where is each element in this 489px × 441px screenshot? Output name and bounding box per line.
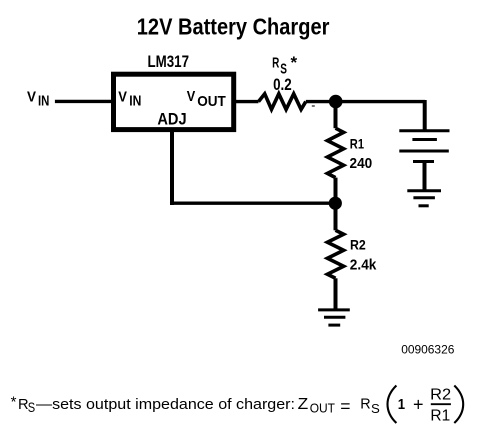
svg-text:IN: IN (38, 93, 49, 110)
svg-text:*: * (11, 393, 17, 410)
svg-text:Z: Z (298, 396, 309, 413)
svg-text:R2: R2 (350, 237, 366, 253)
svg-text:=: = (340, 396, 350, 416)
svg-text:OUT: OUT (197, 93, 226, 110)
svg-text:1: 1 (398, 397, 405, 413)
svg-text:S: S (280, 61, 287, 77)
svg-text:R1: R1 (350, 135, 364, 151)
svg-text:V: V (187, 88, 196, 105)
svg-text:IN: IN (129, 92, 141, 109)
svg-text:V: V (27, 89, 36, 106)
svg-text:2.4k: 2.4k (350, 258, 377, 274)
svg-text:S: S (28, 400, 35, 415)
svg-text:V: V (118, 89, 127, 106)
svg-text:*: * (291, 53, 298, 72)
svg-text:+: + (413, 395, 424, 415)
svg-text:0.2: 0.2 (273, 76, 292, 94)
svg-text:—sets output impedance of char: —sets output impedance of charger: (36, 397, 295, 413)
svg-text:OUT: OUT (310, 400, 335, 415)
svg-text:00906326: 00906326 (401, 342, 454, 356)
svg-text:R: R (360, 397, 370, 413)
svg-text:R1: R1 (430, 408, 450, 425)
svg-text:ADJ: ADJ (157, 111, 186, 129)
svg-text:12V Battery Charger: 12V Battery Charger (137, 14, 330, 40)
svg-text:240: 240 (350, 155, 373, 172)
svg-text:S: S (371, 401, 380, 416)
svg-text:R2: R2 (430, 387, 451, 404)
svg-text:R: R (272, 56, 280, 72)
svg-text:LM317: LM317 (148, 52, 190, 71)
